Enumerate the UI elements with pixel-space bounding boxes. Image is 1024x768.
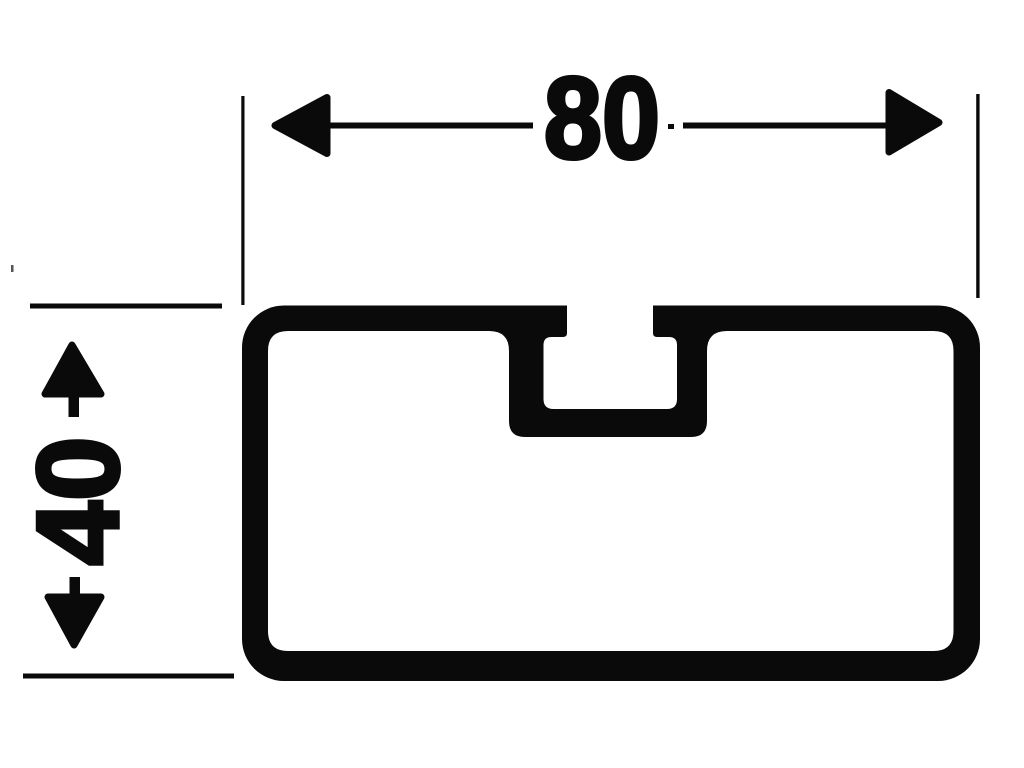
dimension 80: right dimension line segment xyxy=(683,123,887,129)
dimension 40: bottom extension line xyxy=(23,674,234,679)
T-slot opening and channel interior (white) xyxy=(544,298,678,409)
stray scan speck xyxy=(11,265,14,272)
svg-text:40: 40 xyxy=(13,436,143,565)
dimension 80: right extension line xyxy=(976,94,979,298)
profile outline: outer body of 80x40 extrusion cross-section xyxy=(242,306,980,682)
svg-text:80: 80 xyxy=(544,54,660,183)
dimension 80: small dot right of text xyxy=(668,124,674,129)
dimension 40: up arrowhead xyxy=(45,345,101,394)
dimension 80: left extension line xyxy=(241,96,244,305)
dimension 40: down arrow stem xyxy=(70,577,81,595)
dimension 40: top extension line xyxy=(30,304,222,309)
dimension 40: up arrow stem xyxy=(69,396,80,417)
profile interior cavity (white) around T-channel xyxy=(268,331,954,651)
dimension 80: left arrowhead xyxy=(275,98,327,154)
dimension 40: down arrowhead xyxy=(48,597,101,645)
dimension 80: left dimension line segment xyxy=(328,123,533,129)
dimension 80: right arrowhead xyxy=(889,93,939,153)
